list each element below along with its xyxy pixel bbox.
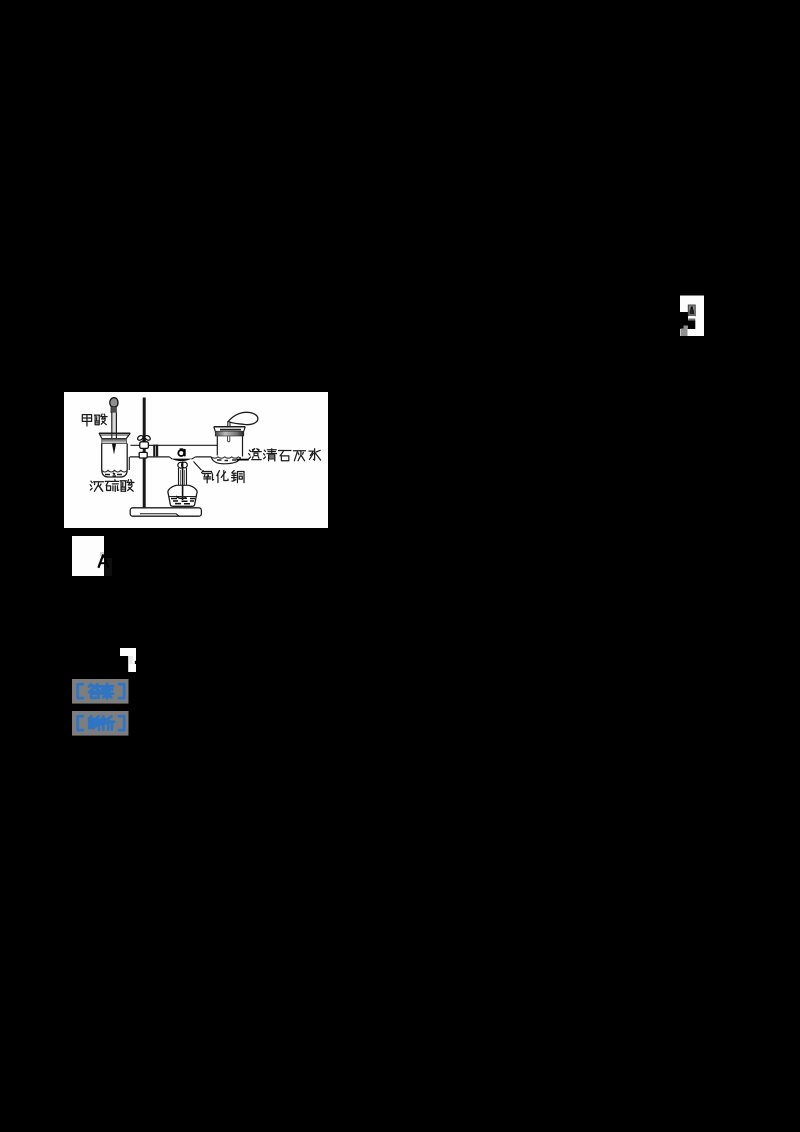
white box with letter A <box>72 536 104 576</box>
letter A <box>96 552 114 570</box>
horizontal glass tube <box>130 445 217 457</box>
dropper with rubber bulb <box>110 398 118 455</box>
pointer to limewater label <box>236 459 249 461</box>
clamp on stand <box>137 435 151 458</box>
tiny thumbnail fragment (bracket shape) <box>679 295 705 337</box>
label yanghuatong (copper oxide) <box>202 471 244 483</box>
label jiasuan (formic acid) <box>82 414 107 426</box>
iron stand rod and base <box>130 398 201 517</box>
right vessel (gas bottle with limewater) <box>211 427 245 464</box>
deflated balloon on vessel mouth <box>228 412 258 426</box>
label chengqingshihuishui (clear limewater) <box>249 449 321 461</box>
white 7-shaped fragment <box>120 648 136 672</box>
chemistry apparatus diagram <box>64 392 328 528</box>
pointer line to CuO label <box>194 462 202 471</box>
left bottle (with concentrated sulfuric acid) <box>99 433 130 477</box>
analysis button <box>72 711 129 736</box>
alcohol lamp <box>168 462 197 507</box>
copper oxide (CuO) in tube bulge <box>169 457 195 459</box>
node label a <box>178 449 185 457</box>
label nongliusuan (conc. sulfuric acid) <box>90 480 134 492</box>
answer button <box>72 679 129 704</box>
rubber connector on tube <box>153 445 158 457</box>
